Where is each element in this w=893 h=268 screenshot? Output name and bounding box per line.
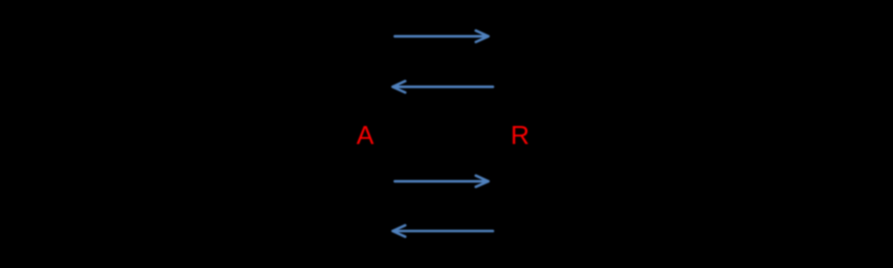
arrow: message 2, R to A (leftward) xyxy=(393,81,493,92)
svg-text:R: R xyxy=(511,120,530,150)
arrow: message 1, A to R (rightward, top) xyxy=(395,31,489,42)
arrow: message 4, R to A (leftward, bottom) xyxy=(393,225,493,236)
svg-text:A: A xyxy=(357,120,375,150)
arrow: message 3, A to R (rightward) xyxy=(395,176,489,187)
